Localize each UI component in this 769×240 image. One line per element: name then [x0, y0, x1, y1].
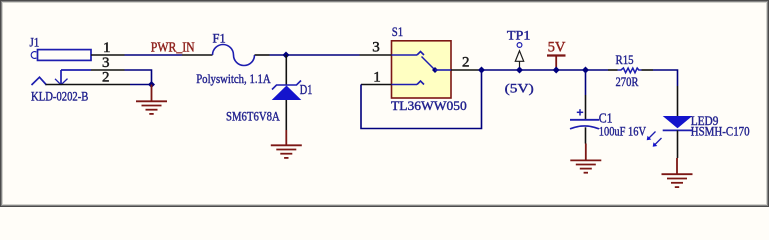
- switch S1 body box: [392, 41, 452, 98]
- svg-text:HSMH-C170: HSMH-C170: [691, 125, 750, 139]
- capacitor C1 plus sign: [577, 109, 583, 115]
- fuse F1 body: [213, 45, 255, 66]
- junction at D1 node: [283, 52, 290, 59]
- svg-text:F1: F1: [213, 30, 226, 45]
- svg-text:S1: S1: [392, 24, 403, 39]
- capacitor C1 pin top: [585, 95, 587, 119]
- S1 common contact dot: [432, 67, 438, 73]
- junction at C1 branch: [582, 67, 589, 74]
- svg-text:TL36WW050: TL36WW050: [391, 98, 467, 113]
- test point TP1 stem: [519, 61, 521, 70]
- LED9 triangle: [663, 116, 693, 128]
- svg-text:2: 2: [462, 55, 470, 71]
- wire: J1 pin3 to gnd corner: [125, 70, 152, 85]
- svg-text:Polyswitch, 1.1A: Polyswitch, 1.1A: [196, 71, 271, 86]
- diode D1 cathode bar (zener): [272, 81, 301, 90]
- capacitor C1 pin bottom: [585, 127, 587, 143]
- svg-text:3: 3: [372, 40, 380, 56]
- svg-text:1: 1: [103, 40, 111, 56]
- resistor R15 body zigzag: [618, 68, 642, 73]
- ground (C1): [570, 144, 601, 173]
- S1 pin 2: [451, 69, 482, 71]
- connector J1 switch arrowhead: [55, 79, 68, 85]
- svg-text:(5V): (5V): [505, 80, 534, 95]
- wire: J1 pin1 to fuse (PWR_IN net): [125, 54, 183, 56]
- S1 pin 1 internal stub and contact: [392, 81, 425, 85]
- S1 pin 3 internal stub and contact: [392, 52, 425, 56]
- junction at 5V: [553, 67, 560, 74]
- S1 pin 3: [360, 54, 392, 56]
- svg-text:PWR_IN: PWR_IN: [151, 39, 195, 54]
- LED9 cathode bar: [663, 129, 693, 131]
- svg-text:J1: J1: [30, 35, 40, 50]
- resistor R15 pins: [608, 69, 618, 71]
- LED9 emission arrows: [647, 132, 662, 147]
- ground (J1): [136, 85, 167, 114]
- J1 pin 2 (switch): [46, 84, 131, 86]
- J1 pin 1: [91, 54, 125, 56]
- wire: S1 pin1 loop to output net: [361, 70, 482, 129]
- svg-text:3: 3: [102, 55, 110, 71]
- S1 pin 1: [361, 84, 392, 86]
- diode D1 (TVS) pin top: [285, 55, 287, 85]
- wire: C1 branch down: [585, 70, 587, 95]
- svg-text:R15: R15: [616, 53, 634, 67]
- junction at S1 output: [478, 67, 485, 74]
- capacitor C1 bottom plate (curved): [570, 126, 599, 129]
- J1 pin 3: [91, 69, 125, 71]
- LED9 pin bottom: [677, 130, 679, 158]
- junction at J1 ground node: [148, 81, 155, 88]
- svg-text:TP1: TP1: [507, 28, 531, 43]
- fuse F1 pins: [182, 54, 213, 56]
- capacitor C1 top plate: [570, 119, 599, 121]
- wire: J1 pin2 to gnd junction: [130, 84, 152, 86]
- wire: R15 to LED9 corner: [653, 70, 678, 86]
- S1 pin 2 internal stub: [435, 69, 451, 71]
- power symbol 5V bar: [547, 56, 566, 71]
- S1 switch lever: [422, 57, 435, 70]
- diode D1 pin bottom: [285, 100, 287, 130]
- ground (LED9): [662, 158, 693, 187]
- junction at TP1: [516, 67, 523, 74]
- svg-text:KLD-0202-B: KLD-0202-B: [31, 89, 88, 103]
- svg-text:2: 2: [102, 69, 110, 85]
- svg-text:D1: D1: [300, 82, 313, 97]
- connector J1 symbol: [31, 50, 91, 85]
- wire: fuse to S1 pin3: [270, 54, 360, 56]
- ground (D1): [271, 130, 302, 158]
- svg-text:SM6T6V8A: SM6T6V8A: [226, 109, 280, 123]
- diode D1 anode triangle: [272, 86, 302, 101]
- svg-text:100uF 16V: 100uF 16V: [599, 123, 647, 138]
- svg-text:1: 1: [373, 69, 381, 85]
- svg-text:5V: 5V: [548, 39, 566, 55]
- test point TP1 circle: [517, 43, 522, 48]
- svg-text:270R: 270R: [616, 75, 640, 89]
- wire: 5V net horizontal: [482, 69, 609, 71]
- test point TP1 probe triangle: [515, 51, 523, 62]
- LED9 pin top: [677, 86, 679, 116]
